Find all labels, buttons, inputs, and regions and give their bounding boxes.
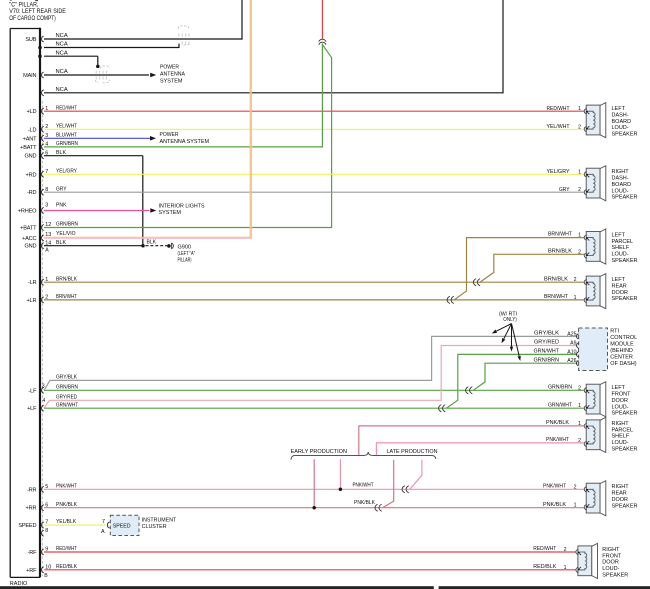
svg-text:A: A	[101, 529, 105, 535]
svg-text:+BATT: +BATT	[20, 145, 37, 151]
svg-text:FRONT: FRONT	[602, 553, 622, 559]
wire NCA-4 MAIN	[44, 74, 149, 76]
early production tap PNK/BLK	[313, 459, 315, 508]
arrow to interior lights system	[150, 208, 156, 213]
wire NCA-1 SUB	[44, 38, 242, 40]
svg-text:NCA: NCA	[56, 42, 68, 48]
svg-text:SPEAKER: SPEAKER	[612, 296, 638, 302]
svg-text:1: 1	[574, 295, 577, 301]
svg-text:-LD: -LD	[28, 127, 37, 133]
RTI pin arcs	[577, 334, 579, 339]
svg-text:CLUSTER: CLUSTER	[142, 524, 167, 530]
svg-text:REAR: REAR	[612, 491, 627, 497]
connector face dashed line	[42, 101, 44, 576]
wire GRY/BLK (-LF branch)	[44, 336, 577, 390]
svg-text:A10: A10	[567, 349, 576, 355]
svg-text:CONTROL: CONTROL	[610, 335, 637, 341]
svg-text:7: 7	[102, 519, 105, 525]
svg-text:PNK/WHT: PNK/WHT	[56, 483, 77, 489]
svg-text:YEL/BLK: YEL/BLK	[56, 519, 76, 525]
svg-text:PNK/BLK: PNK/BLK	[546, 420, 569, 426]
svg-text:8: 8	[45, 528, 48, 534]
svg-text:+ANT: +ANT	[23, 136, 37, 142]
svg-text:BLK: BLK	[147, 240, 157, 246]
svg-text:SPEAKER: SPEAKER	[602, 572, 628, 578]
wire NCA-3	[44, 55, 98, 57]
right dashboard loudspeaker	[584, 166, 606, 201]
arrow to power antenna system	[150, 73, 156, 78]
svg-text:GRN/BRN: GRN/BRN	[548, 384, 572, 390]
svg-text:LOUD-: LOUD-	[612, 440, 629, 446]
vertical connector arcs red-green	[319, 39, 326, 41]
svg-text:A26: A26	[567, 358, 576, 364]
svg-text:INTERIOR LIGHTS: INTERIOR LIGHTS	[159, 203, 205, 209]
svg-text:LEFT: LEFT	[612, 385, 626, 391]
svg-text:GRY/BLK: GRY/BLK	[56, 375, 77, 381]
svg-text:-LF: -LF	[29, 388, 38, 394]
inline connector (dashed) on MAIN	[100, 66, 109, 69]
svg-text:DOOR: DOOR	[612, 398, 629, 404]
junction dot BLK	[141, 244, 145, 248]
svg-text:4: 4	[42, 398, 45, 404]
svg-text:NCA: NCA	[56, 69, 68, 75]
svg-text:A25: A25	[567, 331, 576, 337]
svg-text:EARLY PRODUCTION: EARLY PRODUCTION	[291, 449, 348, 455]
svg-text:1: 1	[578, 421, 581, 427]
svg-text:CENTER: CENTER	[610, 355, 633, 361]
svg-text:+LF: +LF	[27, 406, 37, 412]
svg-text:RED/WHT: RED/WHT	[56, 546, 77, 552]
inline connector late PNK/WHT	[402, 486, 405, 493]
svg-text:PARCEL: PARCEL	[612, 239, 634, 245]
svg-text:LEFT: LEFT	[612, 106, 626, 112]
svg-text:DOOR: DOOR	[612, 497, 629, 503]
svg-text:2: 2	[578, 438, 581, 444]
inline connector on -LR	[473, 279, 476, 286]
wire BRN/WHT branch to parcel	[454, 238, 584, 300]
right front door loudspeaker	[576, 543, 598, 578]
svg-text:PNK/BLK: PNK/BLK	[543, 502, 566, 508]
late production tap PNK/BLK	[383, 460, 394, 508]
svg-text:RTI: RTI	[610, 328, 619, 334]
svg-text:LATE PRODUCTION: LATE PRODUCTION	[387, 449, 438, 455]
svg-text:GRN/BRN: GRN/BRN	[534, 357, 560, 363]
wire PNK/BLK pin6 (+RR)	[44, 507, 584, 509]
svg-text:ONLY): ONLY)	[503, 317, 517, 323]
svg-text:GRY/RED: GRY/RED	[534, 340, 559, 346]
wire GRY/RED (+LF branch)	[44, 346, 577, 409]
wire GRN/WHT pin4 (+LF)	[44, 407, 584, 409]
wire RED/BLK pin10 (+RF)	[44, 569, 576, 571]
svg-text:RED/WHT: RED/WHT	[56, 105, 77, 111]
svg-text:A9: A9	[570, 341, 576, 347]
svg-text:GRN/WHT: GRN/WHT	[548, 402, 572, 408]
wire YEL/WHT pin2 (-LD)	[44, 128, 584, 130]
left rear door speaker	[584, 274, 606, 309]
svg-text:1: 1	[578, 233, 581, 239]
wire PNK pin3 (+RHEO)	[44, 210, 150, 212]
speed box pin arc	[107, 522, 109, 528]
early production tap PNK/WHT	[339, 459, 341, 489]
wire BLU/WHT pin3 (+ANT)	[44, 137, 150, 139]
wire BLK dashed to ground	[146, 245, 168, 247]
inline connector on +LF	[439, 405, 442, 412]
svg-text:LEFT: LEFT	[612, 277, 626, 283]
svg-text:GRN/WHT: GRN/WHT	[56, 402, 78, 408]
svg-text:+RD: +RD	[26, 172, 37, 178]
bar junction dots	[38, 46, 42, 50]
svg-text:YEL/GRY: YEL/GRY	[56, 168, 77, 174]
RTI control module box	[579, 328, 608, 371]
svg-text:PNK/BLK: PNK/BLK	[56, 502, 77, 508]
svg-text:-RR: -RR	[27, 487, 37, 493]
svg-text:NCA: NCA	[56, 50, 68, 56]
arrow w/rti to GRY/BLK	[496, 324, 511, 332]
svg-text:2: 2	[574, 277, 577, 283]
radio connector bar	[9, 29, 11, 578]
instrument cluster SPEED box	[110, 515, 139, 535]
wire GRN/WHT branch to RTI A10	[446, 354, 577, 408]
junction dot NCA-3	[96, 65, 100, 69]
svg-text:NCA: NCA	[56, 87, 68, 93]
svg-text:+ACC: +ACC	[22, 236, 36, 242]
svg-text:DOOR: DOOR	[612, 290, 629, 296]
svg-text:BRN/WHT: BRN/WHT	[548, 232, 572, 238]
svg-text:OF CARGO COMPT): OF CARGO COMPT)	[9, 15, 56, 22]
svg-text:+BATT: +BATT	[20, 226, 37, 232]
junction dot early PNK/BLK	[312, 506, 316, 510]
wire BRN/BLK pin1 (-LR)	[44, 281, 584, 283]
wire PNK/BLK to right parcel	[359, 426, 584, 455]
wire GRN/BRN pin12 (+BATT)	[44, 227, 332, 229]
svg-text:LEFT: LEFT	[612, 233, 626, 239]
wire RED/WHT pin9 (-RF)	[44, 551, 576, 553]
arrow to power antenna system 2	[150, 136, 156, 141]
svg-text:FRONT: FRONT	[612, 392, 632, 398]
svg-text:-LR: -LR	[28, 280, 37, 286]
wire GRN/BRN branch to RTI A26	[473, 363, 577, 390]
svg-text:OF DASH): OF DASH)	[610, 361, 636, 367]
right rear door speaker	[584, 481, 606, 516]
junction dot early PNK/WHT	[339, 488, 343, 492]
svg-text:RIGHT: RIGHT	[612, 484, 630, 490]
wire GRN/BRN branch diagonal	[322, 45, 331, 58]
svg-text:1: 1	[578, 403, 581, 409]
svg-text:BRN/BLK: BRN/BLK	[544, 276, 568, 282]
svg-text:INSTRUMENT: INSTRUMENT	[142, 517, 177, 523]
wire YEL/GRY pin7 (+RD)	[44, 173, 584, 175]
svg-text:+LD: +LD	[26, 109, 36, 115]
wire BLK pin14 (GND)	[44, 245, 143, 247]
right parcel shelf loudspeaker	[584, 417, 606, 452]
wire NCA-2	[44, 47, 179, 49]
svg-text:2: 2	[578, 385, 581, 391]
svg-text:LOUD-: LOUD-	[612, 188, 629, 194]
svg-text:B: B	[44, 573, 48, 579]
svg-text:+LR: +LR	[26, 298, 36, 304]
svg-text:BRN/WHT: BRN/WHT	[544, 294, 568, 300]
svg-text:-RD: -RD	[27, 190, 37, 196]
wire GRN/BRN pin4 (+BATT)	[44, 146, 322, 148]
wire BRN/WHT pin2 (+LR)	[44, 299, 584, 301]
svg-text:PNK/WHT: PNK/WHT	[353, 483, 374, 489]
ground G900 symbol	[167, 244, 171, 248]
svg-text:GRN/WHT: GRN/WHT	[534, 349, 560, 355]
svg-text:3: 3	[42, 383, 45, 389]
svg-text:1: 1	[564, 565, 567, 571]
wire PNK/WHT pin5 (-RR)	[44, 488, 584, 490]
svg-text:1: 1	[574, 503, 577, 509]
inline connector on -LF	[466, 387, 469, 394]
wire YEL/BLK pin7 (SPEED)	[44, 524, 106, 526]
svg-text:(BEHIND: (BEHIND	[610, 348, 633, 354]
svg-text:LOUD-: LOUD-	[612, 404, 629, 410]
late production tap PNK/WHT	[410, 460, 422, 490]
production brace	[291, 452, 436, 460]
svg-text:GRN/BRN: GRN/BRN	[56, 222, 78, 228]
svg-text:BLK: BLK	[56, 240, 66, 246]
svg-text:-RF: -RF	[28, 550, 38, 556]
svg-text:(LEFT "A": (LEFT "A"	[178, 251, 196, 257]
wire BLK pin6 (GND)	[44, 155, 143, 157]
svg-text:BOARD: BOARD	[612, 182, 632, 188]
svg-text:G900: G900	[178, 244, 192, 250]
arrow w/rti to GRN/BRN	[512, 324, 520, 357]
arrow w/rti to GRN/WHT	[511, 324, 513, 347]
bottom border bars	[0, 586, 434, 589]
svg-text:PNK/WHT: PNK/WHT	[543, 483, 566, 489]
left dashboard loudspeaker	[584, 103, 606, 138]
svg-text:2: 2	[574, 484, 577, 490]
svg-text:DASH-: DASH-	[612, 176, 629, 182]
wire RED vertical from top	[321, 0, 323, 39]
svg-text:+RHEO: +RHEO	[18, 209, 37, 215]
wire YEL/VIO pin13 (+ACC)	[44, 236, 250, 238]
wire GRY pin8 (-RD)	[44, 191, 584, 193]
svg-text:SHELF: SHELF	[612, 245, 630, 251]
svg-text:BLU/WHT: BLU/WHT	[56, 132, 77, 138]
svg-text:SPEAKER: SPEAKER	[612, 258, 638, 264]
svg-text:+RR: +RR	[26, 506, 37, 512]
svg-text:GND: GND	[24, 154, 36, 160]
svg-text:NCA: NCA	[56, 33, 68, 39]
svg-text:SPEED: SPEED	[113, 524, 131, 530]
svg-text:SPEAKER: SPEAKER	[612, 411, 638, 417]
svg-text:2: 2	[578, 249, 581, 255]
svg-text:A: A	[45, 248, 49, 254]
svg-text:SUB: SUB	[25, 37, 36, 43]
svg-text:GRY: GRY	[56, 186, 67, 192]
svg-text:POWER: POWER	[160, 132, 179, 138]
svg-text:RED/WHT: RED/WHT	[533, 546, 556, 552]
svg-text:REAR: REAR	[612, 283, 627, 289]
svg-text:SHELF: SHELF	[612, 434, 630, 440]
svg-text:ANTENNA SYSTEM: ANTENNA SYSTEM	[160, 139, 210, 145]
svg-text:DASH-: DASH-	[612, 112, 629, 118]
svg-text:SPEED: SPEED	[18, 523, 36, 529]
svg-text:SPEAKER: SPEAKER	[612, 132, 638, 138]
inline connector (dashed) on NCA-1	[178, 26, 189, 29]
svg-text:SYSTEM: SYSTEM	[160, 79, 183, 85]
left front door loudspeaker	[584, 382, 606, 417]
svg-text:LOUD-: LOUD-	[612, 125, 629, 131]
wire PNK/WHT to right parcel	[376, 443, 584, 455]
svg-text:PNK/WHT: PNK/WHT	[546, 437, 569, 443]
svg-text:DOOR: DOOR	[602, 560, 619, 566]
svg-text:BOARD: BOARD	[612, 119, 632, 125]
svg-text:LOUD-: LOUD-	[602, 566, 619, 572]
svg-text:GRY/BLK: GRY/BLK	[534, 331, 559, 337]
svg-text:LOUD-: LOUD-	[612, 252, 629, 258]
inline connector late PNK/BLK	[375, 504, 378, 511]
svg-text:GRN/BRN: GRN/BRN	[56, 141, 78, 147]
svg-text:RIGHT: RIGHT	[612, 169, 630, 175]
svg-text:MAIN: MAIN	[23, 73, 36, 79]
svg-text:BRN/WHT: BRN/WHT	[56, 294, 77, 300]
svg-text:GRY/RED: GRY/RED	[56, 394, 77, 400]
svg-text:RIGHT: RIGHT	[612, 421, 630, 427]
svg-text:GRN/BRN: GRN/BRN	[56, 384, 78, 390]
svg-text:RIGHT: RIGHT	[602, 547, 620, 553]
arrow w/rti to GRY/RED	[504, 324, 512, 339]
svg-text:RED/BLK: RED/BLK	[56, 564, 77, 570]
svg-text:+RF: +RF	[26, 568, 37, 574]
inline connector on +LR	[447, 296, 450, 303]
svg-text:BLK: BLK	[56, 150, 66, 156]
svg-text:SPEAKER: SPEAKER	[612, 195, 638, 201]
svg-text:RADIO: RADIO	[10, 581, 28, 587]
svg-text:GND: GND	[24, 244, 36, 250]
radio pin arcs	[42, 36, 44, 42]
svg-text:3: 3	[45, 202, 48, 208]
wire NCA-5	[44, 92, 503, 94]
svg-text:MODULE: MODULE	[610, 341, 634, 347]
svg-text:YEL/VIO: YEL/VIO	[56, 231, 76, 237]
svg-text:ANTENNA: ANTENNA	[160, 72, 185, 78]
svg-text:BRN/BLK: BRN/BLK	[548, 248, 572, 254]
wire GRN/BRN pin3 (-LF)	[44, 389, 584, 391]
svg-text:POWER: POWER	[160, 65, 179, 71]
svg-text:YEL/WHT: YEL/WHT	[56, 123, 77, 129]
svg-text:PILLAR): PILLAR)	[178, 257, 192, 263]
svg-text:RED/BLK: RED/BLK	[533, 564, 556, 570]
svg-text:PNK: PNK	[56, 202, 67, 208]
svg-text:2: 2	[564, 547, 567, 553]
wire BRN/BLK branch to parcel	[480, 254, 584, 282]
svg-text:PARCEL: PARCEL	[612, 427, 634, 433]
wire RED/WHT pin1 (+LD)	[44, 110, 584, 112]
svg-text:BRN/BLK: BRN/BLK	[56, 276, 77, 282]
svg-text:PNK/BLK: PNK/BLK	[354, 500, 375, 506]
left parcel shelf loudspeaker	[584, 229, 606, 264]
svg-text:SPEAKER: SPEAKER	[612, 503, 638, 509]
svg-text:SYSTEM: SYSTEM	[159, 210, 182, 216]
svg-text:SPEAKER: SPEAKER	[612, 446, 638, 452]
